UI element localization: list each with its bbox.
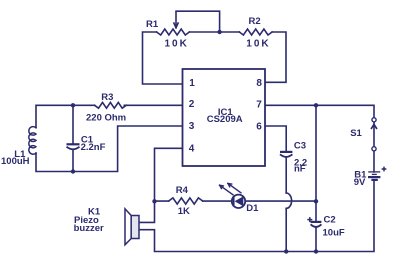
svg-text:100uH: 100uH [1, 156, 30, 167]
svg-text:1K: 1K [178, 206, 190, 217]
svg-text:buzzer: buzzer [74, 223, 104, 234]
svg-text:R3: R3 [101, 92, 113, 103]
svg-text:R4: R4 [176, 185, 189, 196]
svg-text:D1: D1 [246, 203, 259, 214]
svg-text:3: 3 [189, 121, 195, 132]
svg-text:10uF: 10uF [323, 227, 345, 238]
svg-text:nF: nF [294, 164, 306, 175]
svg-text:S1: S1 [350, 128, 362, 139]
svg-text:R2: R2 [249, 16, 261, 27]
svg-text:1: 1 [189, 78, 195, 89]
svg-text:6: 6 [256, 121, 262, 132]
svg-text:7: 7 [256, 99, 262, 110]
svg-text:220 Ohm: 220 Ohm [86, 113, 126, 124]
svg-text:C3: C3 [294, 141, 306, 152]
svg-text:8: 8 [256, 78, 262, 89]
svg-text:R1: R1 [146, 19, 159, 30]
svg-text:4: 4 [189, 143, 195, 154]
svg-text:C2: C2 [324, 215, 336, 226]
svg-text:2.2nF: 2.2nF [81, 142, 106, 153]
svg-text:10K: 10K [246, 38, 270, 49]
svg-text:CS209A: CS209A [207, 114, 243, 125]
svg-text:2: 2 [189, 99, 195, 110]
svg-text:10K: 10K [165, 38, 189, 49]
svg-text:9V: 9V [354, 177, 366, 188]
